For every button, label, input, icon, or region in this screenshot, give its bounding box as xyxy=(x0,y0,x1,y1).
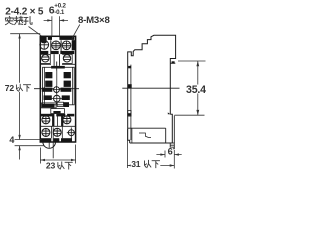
label 6 side xyxy=(167,146,173,156)
4-dim extension lines xyxy=(15,140,44,146)
6-side extension lines xyxy=(164,151,166,158)
front view outer body outline xyxy=(40,36,75,142)
4-dim down arrow xyxy=(18,135,20,140)
svg-text:31: 31 xyxy=(131,159,141,169)
interior wall xyxy=(131,128,133,143)
T-connector latch above relay pocket xyxy=(56,62,58,71)
contact slot 5 (lower left) xyxy=(44,95,52,100)
interior sub-step xyxy=(139,133,151,137)
screw A1 (row1 left, cross head) xyxy=(40,40,50,50)
relay pocket box xyxy=(43,67,75,105)
label 31 or-less xyxy=(131,159,161,169)
6-dim top extension lines xyxy=(52,16,60,36)
rail level black bar left xyxy=(42,88,53,92)
rail level long line xyxy=(122,87,179,89)
rail level black bar right xyxy=(61,88,72,92)
23-dim line xyxy=(40,159,75,161)
column small box detail xyxy=(128,111,131,117)
crosshair target (mounting hole center) xyxy=(51,93,62,104)
contact slot 2 (upper right) xyxy=(64,72,71,78)
screw B1 (row2 left, slotted with washer) xyxy=(42,55,49,62)
svg-text:4: 4 xyxy=(9,135,14,145)
svg-text:2-4.2 × 5: 2-4.2 × 5 xyxy=(5,6,44,17)
top extension line from 72-dim to body xyxy=(10,33,40,35)
row 3 channel black flanks xyxy=(52,114,54,127)
label 23 or-less xyxy=(46,161,72,171)
6-dim left-pointing arrow xyxy=(60,19,65,21)
center guide line extending below xyxy=(52,128,54,159)
screw D1 (row4 left) xyxy=(42,128,50,136)
31-dim line xyxy=(127,165,174,167)
row 3 channel center line xyxy=(57,114,59,127)
svg-text:6: 6 xyxy=(168,146,173,156)
23-dim left arrow xyxy=(40,159,45,161)
terminal step wall bottom right xyxy=(165,128,167,143)
inner wall of clip channel xyxy=(130,65,132,140)
contact slot 4 (mid right) xyxy=(64,81,71,87)
lower-right small white box xyxy=(57,102,63,106)
interior floor line xyxy=(128,127,166,129)
31-dim extension lines xyxy=(127,129,174,169)
svg-text:35.4: 35.4 xyxy=(186,84,206,96)
72-dim top arrow xyxy=(18,34,20,39)
right edge lower segment xyxy=(173,116,175,144)
terminal row 2 cell boxes xyxy=(40,54,75,64)
23-dim right arrow xyxy=(71,159,76,161)
72-dim vertical line xyxy=(19,34,21,160)
svg-text:-0.1: -0.1 xyxy=(54,9,65,16)
channel top black square xyxy=(128,66,131,68)
crosshair circle small (screw hole center) xyxy=(53,86,61,94)
screw C2 (row3 right) xyxy=(63,116,71,124)
lower-left box with black bar xyxy=(42,103,57,108)
4-dim up arrow xyxy=(18,146,20,151)
row 1 right dark block xyxy=(72,40,76,50)
center bottom box with black bar xyxy=(51,109,65,114)
35.4-dim up arrow xyxy=(196,61,199,66)
svg-text:72: 72 xyxy=(5,83,15,93)
relay pocket inner walls xyxy=(44,67,72,105)
terminal row 3 bottom line xyxy=(40,125,75,127)
terminal row 1 divider lines xyxy=(51,40,61,51)
screw A3 (row1 right, cross head) xyxy=(62,41,71,50)
screw B2 (row2 right, slotted with washer) xyxy=(63,55,70,62)
screw D2 (row4 middle) xyxy=(53,128,61,136)
35.4-dim down arrow xyxy=(196,110,199,115)
contact slot 6 (lower right) xyxy=(62,95,70,100)
6-side right-pointing arrow xyxy=(160,153,165,155)
6-dim right-pointing arrow xyxy=(47,19,52,21)
hook notch black mark top right xyxy=(172,61,175,63)
31-dim right arrow xyxy=(170,164,175,166)
35.4-dim extension lines xyxy=(175,61,206,115)
top edge black bar xyxy=(48,36,52,40)
label 35.4 xyxy=(185,84,208,96)
foot ladder bottom right xyxy=(170,143,174,149)
row 4 divider xyxy=(52,126,63,138)
svg-text:8-M3×8: 8-M3×8 xyxy=(78,15,110,26)
6-dim arrow tails xyxy=(44,19,68,21)
label mounting-hole (CJK) xyxy=(5,16,32,24)
label 72 or-less xyxy=(5,83,32,93)
contact slot 3 (mid left) xyxy=(45,81,52,87)
mounting hole leader line xyxy=(29,27,42,36)
35.4-dim vertical line xyxy=(197,61,199,115)
8-M3x8 leader line xyxy=(72,25,80,39)
row 3 top black band xyxy=(40,114,74,117)
mounting hole crosshair (bottom right 4.2x5) xyxy=(67,127,76,138)
mounting tab hole (4.2x5) top-left black square xyxy=(41,36,47,42)
side view outer profile xyxy=(128,35,176,143)
lower-right black piece xyxy=(64,102,69,107)
6-side arrow tails xyxy=(156,154,181,156)
label 6 with tolerance xyxy=(49,3,67,17)
bottom black bar segments xyxy=(40,138,72,142)
6-side left-pointing arrow xyxy=(174,153,179,155)
rail level line across front view xyxy=(34,88,79,90)
hook notch black mark right middle xyxy=(168,112,171,114)
contact slot 1 (upper left) xyxy=(45,72,52,78)
row 2 channel walls xyxy=(54,54,59,66)
23-dim extension lines xyxy=(40,145,75,164)
channel clip black square xyxy=(128,84,132,88)
screw A2 (row1 middle, cross head) xyxy=(52,41,61,50)
hold-down clip arc at bottom xyxy=(43,142,56,148)
31-dim left arrow xyxy=(127,164,132,166)
svg-text:23: 23 xyxy=(46,161,56,171)
inter-row black band xyxy=(40,51,74,54)
screw C1 (row3 left) xyxy=(42,116,50,124)
